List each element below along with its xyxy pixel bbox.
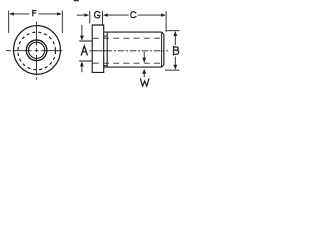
bore hidden line bottom [93, 62, 164, 64]
dim W down arrow [143, 52, 145, 58]
label F [33, 10, 36, 16]
front view vertical centerline [36, 22, 38, 80]
dim B line top segment [174, 35, 176, 45]
dim F arrow left [9, 12, 14, 15]
body outline [104, 32, 164, 67]
body right edge chamfer line [161, 33, 163, 67]
dim A tick top [79, 40, 92, 42]
dim C left arrow head [103, 13, 108, 16]
dim G extension line left [89, 11, 91, 24]
dim F extension line right [61, 11, 63, 34]
label G [95, 12, 100, 18]
front view bore ring outer [26, 40, 47, 61]
front view outer circle [14, 26, 61, 75]
front view dashed circle (body hidden) [18, 32, 56, 70]
dim C line right segment [138, 14, 163, 16]
label C [131, 12, 136, 18]
flange rect [92, 25, 104, 72]
dim G left arrow shaft [77, 14, 86, 16]
dim G extension line right [102, 11, 104, 25]
side view centerline [90, 50, 106, 52]
front view bore ring inner [28, 42, 44, 58]
dim C extension line right [165, 11, 167, 32]
dim W up arrow [143, 73, 145, 77]
dim F arrow right [57, 12, 62, 15]
dim A up arrow [81, 66, 83, 72]
dim C right arrow head [161, 13, 166, 16]
dim G left arrow head [84, 13, 89, 16]
groove tick top [104, 35, 108, 37]
label B [174, 47, 179, 55]
dim B line bottom segment [174, 57, 176, 67]
dim A tick bottom [79, 60, 92, 62]
groove tick bottom [104, 65, 108, 67]
bore hidden line top [93, 37, 164, 39]
dim B up arrow [173, 31, 177, 36]
dim B extension line bottom [165, 69, 180, 71]
dim F line right segment [39, 13, 59, 15]
label A [81, 46, 87, 55]
dim A down arrow [81, 25, 83, 36]
dim F extension line left [8, 11, 10, 34]
top edge artifact [74, 0, 79, 1]
groove line [106, 32, 108, 67]
front view horizontal centerline [6, 50, 62, 52]
dim B extension line top [166, 30, 180, 32]
dim F line left segment [13, 13, 30, 15]
label W [141, 79, 149, 86]
dim C line left segment [106, 14, 129, 16]
dim B down arrow [173, 65, 177, 70]
